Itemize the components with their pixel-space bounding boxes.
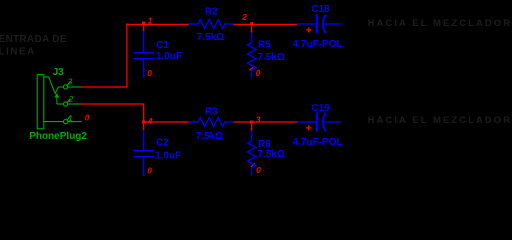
svg-text:R3: R3 bbox=[205, 107, 218, 118]
J3 pin1 lever bbox=[67, 116, 70, 120]
svg-text:C1: C1 bbox=[156, 40, 169, 51]
capacitor C1 bbox=[133, 31, 154, 78]
svg-text:1: 1 bbox=[68, 114, 72, 123]
svg-text:HACIA EL MEZCLADOR: HACIA EL MEZCLADOR bbox=[368, 18, 512, 29]
svg-text:0: 0 bbox=[256, 165, 261, 175]
note ENTRADA DE LINEA bbox=[0, 34, 67, 58]
J3 pin3 lever bbox=[67, 82, 70, 86]
wire bottom row right bbox=[233, 121, 297, 123]
svg-text:4.7uF-POL: 4.7uF-POL bbox=[293, 137, 343, 148]
svg-text:7.5kΩ: 7.5kΩ bbox=[258, 149, 285, 160]
capacitor C19 bbox=[297, 112, 341, 131]
wire pin2 to dropper bbox=[81, 103, 144, 105]
svg-text:PhonePlug2: PhonePlug2 bbox=[29, 131, 87, 142]
svg-text:0: 0 bbox=[85, 113, 90, 123]
plus sign C19 bbox=[306, 125, 311, 130]
svg-text:1.0uF: 1.0uF bbox=[156, 51, 182, 62]
J3 pin1 stub bbox=[68, 121, 82, 123]
R6 pin tick bbox=[251, 163, 255, 167]
svg-text:C2: C2 bbox=[156, 138, 169, 149]
connector J3 PhonePlug2 bbox=[37, 75, 81, 129]
junction node 1 bbox=[142, 22, 145, 25]
C1 top stub bbox=[143, 24, 145, 32]
wire bottom row left bbox=[143, 121, 189, 123]
svg-text:2: 2 bbox=[241, 12, 247, 22]
svg-text:0: 0 bbox=[147, 68, 152, 78]
svg-text:7.5kΩ: 7.5kΩ bbox=[197, 32, 224, 43]
J3 arrow bbox=[56, 97, 58, 105]
J3 pin2 lead from arrow bbox=[57, 103, 64, 105]
resistor R6 bbox=[247, 131, 256, 176]
J3 pin3 lead bbox=[68, 86, 81, 88]
svg-text:HACIA EL MEZCLADOR: HACIA EL MEZCLADOR bbox=[368, 115, 512, 126]
resistor R5 bbox=[247, 33, 256, 78]
R5 top stub bbox=[251, 24, 253, 33]
J3 pin1 contact circle bbox=[64, 120, 68, 124]
wires red bbox=[81, 23, 298, 166]
svg-text:1.0uF: 1.0uF bbox=[155, 151, 181, 162]
svg-text:0: 0 bbox=[256, 68, 261, 78]
C2 top stub bbox=[143, 122, 145, 131]
svg-text:4.7uF-POL: 4.7uF-POL bbox=[293, 39, 343, 50]
J3 tip spring bbox=[44, 77, 63, 94]
resistor R3 bbox=[189, 118, 234, 127]
svg-text:C19: C19 bbox=[311, 103, 330, 114]
R5 pin tick bbox=[250, 67, 254, 70]
wire dropper down bbox=[143, 103, 145, 122]
svg-text:7.5kΩ: 7.5kΩ bbox=[196, 131, 223, 142]
svg-text:ENTRADA DE: ENTRADA DE bbox=[0, 34, 67, 45]
svg-text:7.5kΩ: 7.5kΩ bbox=[258, 52, 285, 63]
wire top row left bbox=[126, 23, 189, 25]
wire riser up bbox=[126, 23, 128, 87]
wire pin3 to riser bbox=[81, 86, 127, 88]
svg-text:R5: R5 bbox=[258, 40, 271, 51]
svg-text:LINEA: LINEA bbox=[0, 47, 36, 58]
J3 pin2 contact circle bbox=[64, 102, 68, 106]
junction node 4 bbox=[142, 120, 145, 123]
J3 pin2 lever bbox=[67, 99, 70, 103]
svg-text:0: 0 bbox=[147, 166, 152, 176]
svg-text:4: 4 bbox=[147, 116, 153, 126]
wire top row right bbox=[233, 23, 297, 25]
capacitor C18 bbox=[297, 14, 341, 33]
capacitor C2 bbox=[133, 130, 154, 176]
svg-text:J3: J3 bbox=[53, 67, 65, 78]
J3 pin3 contact circle bbox=[64, 85, 68, 89]
svg-text:2: 2 bbox=[68, 95, 74, 104]
J3 pin2 lead bbox=[68, 103, 81, 105]
svg-text:3: 3 bbox=[68, 77, 73, 86]
plus sign C18 bbox=[306, 27, 311, 32]
J3 pin1 lead from body bbox=[44, 121, 64, 123]
svg-text:1: 1 bbox=[148, 16, 153, 26]
svg-text:3: 3 bbox=[256, 115, 261, 125]
svg-text:R2: R2 bbox=[205, 6, 218, 17]
J3 arrowhead bbox=[55, 93, 60, 98]
resistor R2 bbox=[189, 20, 234, 29]
svg-text:C18: C18 bbox=[311, 4, 330, 15]
junction node 2 bbox=[250, 22, 253, 25]
R6 top stub bbox=[251, 122, 253, 131]
junction node 3 bbox=[250, 121, 253, 124]
J3 body rectangle bbox=[37, 75, 44, 129]
